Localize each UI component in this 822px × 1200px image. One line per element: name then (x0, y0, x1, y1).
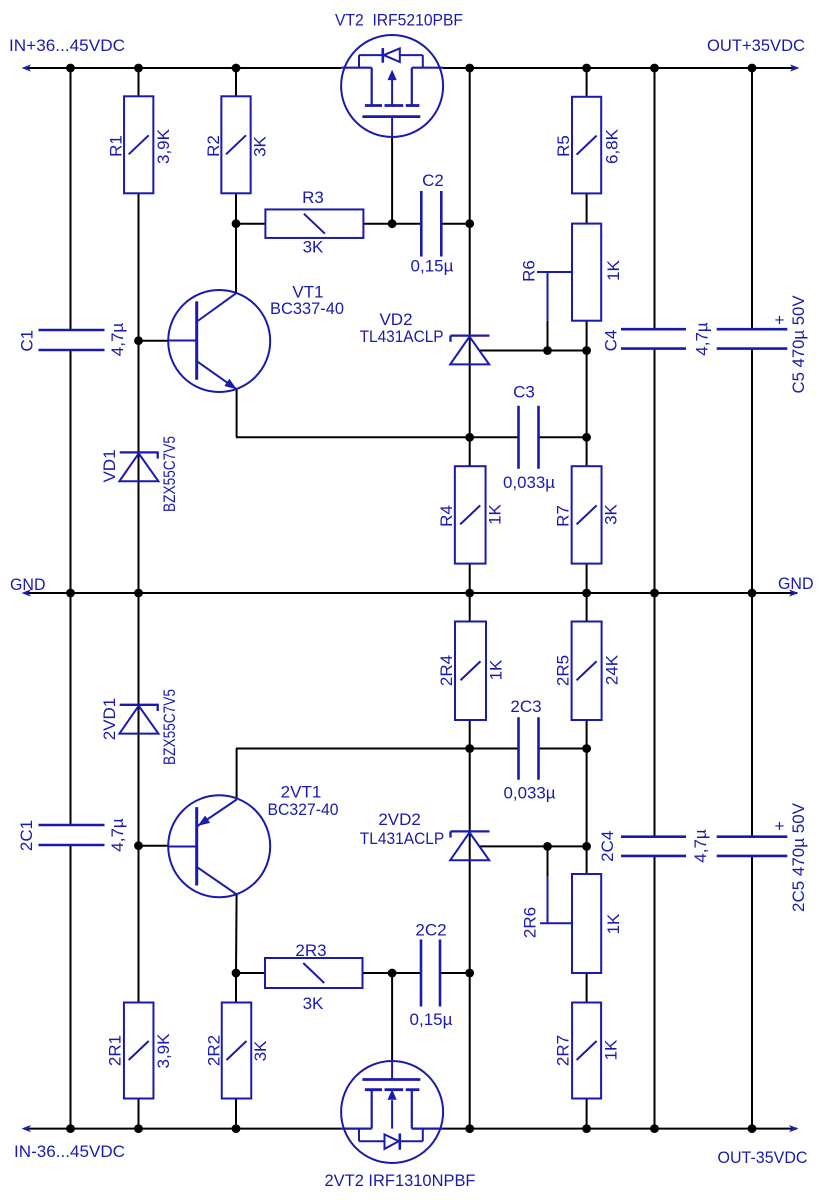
svg-text:2C3: 2C3 (510, 697, 541, 716)
svg-text:R3: R3 (302, 188, 324, 207)
svg-text:4,7µ: 4,7µ (691, 829, 710, 863)
svg-text:2C2: 2C2 (415, 921, 446, 940)
svg-text:BZX55C7V5: BZX55C7V5 (160, 436, 179, 512)
svg-text:+: + (775, 817, 785, 836)
svg-text:2VD1: 2VD1 (100, 698, 119, 741)
svg-text:BZX55C7V5: BZX55C7V5 (160, 689, 179, 765)
svg-text:R5: R5 (554, 135, 573, 157)
svg-text:IN+36...45VDC: IN+36...45VDC (9, 36, 125, 55)
svg-text:1K: 1K (604, 913, 623, 934)
svg-text:VD1: VD1 (100, 449, 119, 482)
svg-text:2R3: 2R3 (295, 941, 326, 960)
svg-text:2C4: 2C4 (598, 831, 617, 862)
svg-text:R7: R7 (554, 505, 573, 527)
svg-text:OUT+35VDC: OUT+35VDC (707, 36, 805, 55)
svg-text:1K: 1K (487, 659, 506, 680)
svg-text:2VT2 IRF1310NPBF: 2VT2 IRF1310NPBF (325, 1171, 476, 1190)
svg-text:TL431ACLP: TL431ACLP (360, 327, 444, 346)
svg-text:2VD2: 2VD2 (378, 810, 421, 829)
svg-text:R1: R1 (107, 135, 126, 157)
svg-text:3K: 3K (303, 238, 324, 257)
svg-text:BC337-40: BC337-40 (270, 299, 344, 318)
svg-text:0,15µ: 0,15µ (411, 257, 454, 276)
svg-text:C3: C3 (513, 383, 535, 402)
svg-text:0,033µ: 0,033µ (503, 473, 555, 492)
svg-text:R4: R4 (437, 505, 456, 527)
svg-text:2R4: 2R4 (437, 655, 456, 686)
svg-text:2R7: 2R7 (554, 1035, 573, 1066)
svg-text:C5 470µ 50V: C5 470µ 50V (789, 295, 808, 394)
svg-text:3K: 3K (251, 135, 270, 156)
svg-text:IN-36...45VDC: IN-36...45VDC (14, 1142, 125, 1161)
svg-text:GND: GND (778, 574, 814, 593)
svg-text:R6: R6 (520, 260, 539, 282)
svg-text:2VT1: 2VT1 (281, 783, 322, 802)
svg-text:4,7µ: 4,7µ (108, 323, 127, 357)
svg-text:4,7µ: 4,7µ (693, 322, 712, 356)
svg-text:4,7µ: 4,7µ (108, 818, 127, 852)
svg-text:1K: 1K (486, 503, 505, 524)
svg-text:2C5 470µ 50V: 2C5 470µ 50V (789, 802, 808, 912)
svg-text:BC327-40: BC327-40 (268, 800, 339, 819)
svg-text:24K: 24K (603, 654, 622, 685)
svg-text:C1: C1 (18, 330, 37, 352)
svg-text:3K: 3K (602, 503, 621, 524)
svg-text:OUT-35VDC: OUT-35VDC (718, 1148, 808, 1167)
svg-text:3,9K: 3,9K (154, 1033, 173, 1069)
svg-text:2R6: 2R6 (521, 907, 540, 938)
svg-text:2R5: 2R5 (554, 655, 573, 686)
svg-text:C4: C4 (602, 330, 621, 352)
svg-text:1K: 1K (604, 259, 623, 280)
svg-text:0,033µ: 0,033µ (504, 784, 556, 803)
svg-text:3,9K: 3,9K (154, 128, 173, 164)
svg-text:1K: 1K (602, 1039, 621, 1060)
svg-text:+: + (775, 311, 785, 330)
svg-text:0,15µ: 0,15µ (410, 1010, 453, 1029)
svg-text:VT2 IRF5210PBF: VT2 IRF5210PBF (335, 11, 463, 30)
svg-text:2R1: 2R1 (105, 1035, 124, 1066)
svg-text:2C1: 2C1 (17, 820, 36, 851)
svg-text:6,8K: 6,8K (603, 128, 622, 164)
svg-text:R2: R2 (204, 135, 223, 157)
svg-text:3K: 3K (251, 1040, 270, 1061)
svg-text:3K: 3K (303, 994, 324, 1013)
svg-text:TL431ACLP: TL431ACLP (360, 829, 445, 848)
svg-text:GND: GND (10, 575, 46, 594)
svg-text:C2: C2 (422, 171, 444, 190)
svg-text:2R2: 2R2 (204, 1035, 223, 1066)
